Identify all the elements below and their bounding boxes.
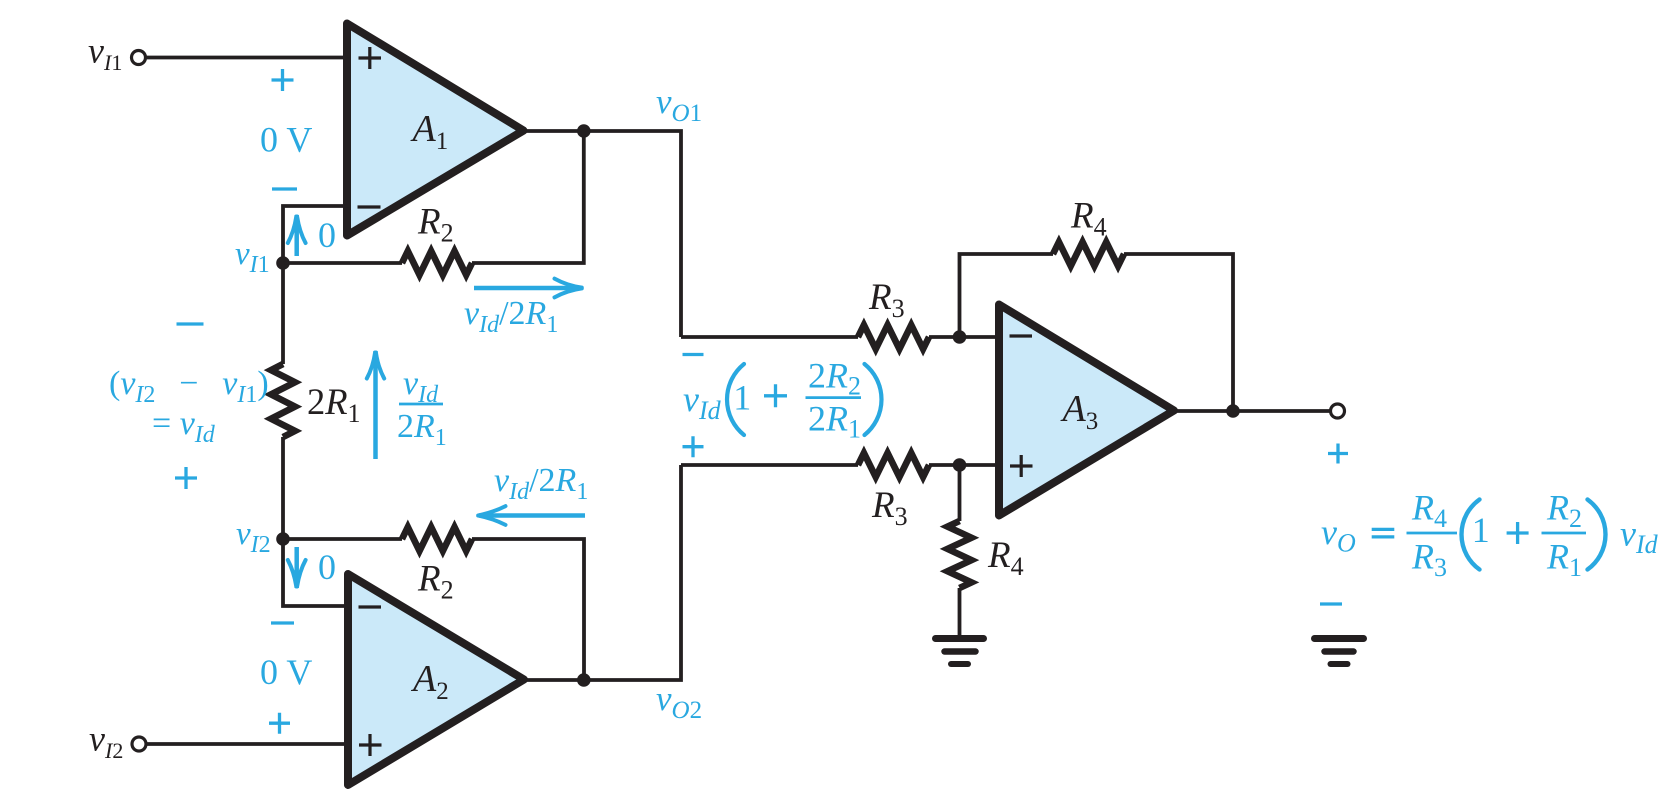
- wire: R2 bottom right to A2 output tap: [472, 539, 584, 680]
- wire: node vI2 to R2 bottom: [283, 537, 402, 541]
- input terminal vI1: [132, 51, 146, 65]
- cyan - above (vI2-vI1): [177, 322, 204, 325]
- wire: A1 - input down to node vI1: [283, 206, 348, 263]
- cyan + below = vId: [175, 467, 197, 489]
- svg-text:0: 0: [318, 215, 336, 255]
- current arrow vId/2R1 (leftward): [479, 513, 585, 518]
- wire: R3 to A3 - input: [929, 335, 999, 339]
- svg-text:1: 1: [733, 377, 751, 417]
- resistor R2 (bottom): [402, 527, 472, 551]
- svg-text:0 V: 0 V: [260, 652, 312, 692]
- op-amp A3 - input marker: [1010, 334, 1033, 337]
- cyan - below 0V (A1 input): [272, 187, 297, 190]
- resistor R4 (feedback): [1053, 242, 1124, 266]
- cyan - (output): [1320, 602, 1342, 605]
- cyan + below 0V (A2 input): [269, 713, 290, 734]
- op-amp A1 + input marker: [359, 47, 382, 69]
- node: A3 + input junction: [953, 458, 967, 472]
- resistor R3 (top): [858, 325, 929, 349]
- middle formula: open paren: [727, 364, 744, 435]
- wire: corner to R3 (bottom): [681, 463, 858, 467]
- resistor R2 (top): [402, 251, 472, 275]
- wire: vI2 terminal to A2 + input: [146, 742, 348, 746]
- op-amp A1 - input marker: [358, 205, 381, 208]
- current arrow vId/2R1 (rightward): [474, 286, 583, 291]
- node: A1 output junction: [577, 124, 591, 138]
- wire: R4 to ground: [958, 588, 962, 635]
- op-amp A2 - input marker: [359, 605, 382, 608]
- cyan + above 0V (A1 input): [272, 69, 294, 91]
- svg-text:vId/2R1: vId/2R1: [464, 295, 558, 338]
- cyan - above 0V (A2 input): [271, 621, 294, 624]
- wire: feedback tap from A1 output down to R2: [472, 131, 584, 263]
- wire: A3 output: [1174, 409, 1331, 413]
- svg-text:1: 1: [1472, 510, 1490, 550]
- node: A3 - input junction: [953, 330, 967, 344]
- cyan + (output): [1328, 444, 1348, 464]
- wire: R3 to A3 + input: [929, 463, 999, 467]
- resistor R3 (bottom): [858, 453, 929, 477]
- ground (output reference): [1315, 639, 1364, 665]
- ground (below R4): [936, 639, 984, 665]
- output formula: equals: [1372, 529, 1395, 537]
- wire: A2 output to corner and up to R3 bottom: [524, 465, 681, 680]
- wire: A3 + node down to R4: [958, 465, 962, 521]
- op-amp A1: [347, 24, 524, 236]
- svg-text:0: 0: [318, 547, 336, 587]
- node: A2 output junction: [577, 673, 591, 687]
- wire: 2R1 down to node vI2: [281, 437, 285, 539]
- current arrow 0 (down, into A2 - input): [294, 547, 299, 588]
- output formula: close paren: [1588, 500, 1606, 570]
- wire: node vI1 to R2: [283, 261, 402, 265]
- wire: R4 feedback loop: [960, 254, 1054, 337]
- node vI1: [276, 256, 290, 270]
- wire: R4 to A3 output: [1124, 254, 1233, 411]
- current arrow vId/2R1 (up through 2R1): [373, 351, 378, 459]
- current arrow 0 (up, into A1 - input): [294, 215, 299, 256]
- wire: A1 output to corner and down to R3 top: [524, 131, 682, 337]
- node: A3 output junction: [1226, 404, 1240, 418]
- wire: vI1 terminal to A1 + input: [145, 56, 348, 60]
- wire: node vI1 down to 2R1: [281, 263, 285, 364]
- svg-text:vId/2R1: vId/2R1: [494, 462, 588, 505]
- middle formula: - sign: [683, 353, 704, 356]
- resistor R4 (to ground): [948, 521, 972, 588]
- middle formula: close paren: [865, 364, 882, 435]
- resistor 2R1: [271, 364, 295, 437]
- node vI2: [276, 532, 290, 546]
- wire: node vI2 down to A2 - input: [283, 539, 348, 606]
- output terminal vO: [1331, 404, 1345, 418]
- op-amp A3 + input marker: [1010, 455, 1033, 477]
- op-amp A2 + input marker: [359, 734, 382, 756]
- wire: corner to R3 (top): [681, 335, 858, 339]
- middle formula: + sign: [683, 436, 704, 457]
- output formula: open paren: [1462, 500, 1480, 570]
- svg-text:0 V: 0 V: [260, 120, 312, 160]
- op-amp A3: [999, 305, 1174, 516]
- op-amp A2: [348, 574, 524, 785]
- input terminal vI2: [132, 737, 146, 751]
